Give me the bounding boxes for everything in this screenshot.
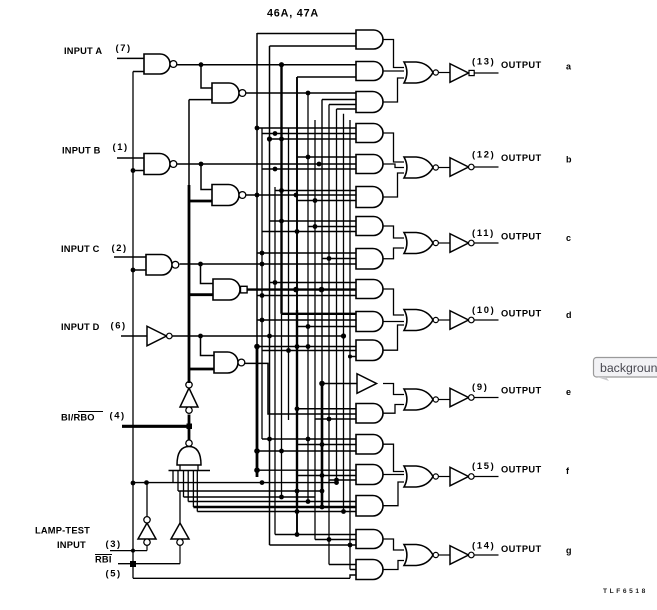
svg-text:(3): (3) (106, 538, 122, 549)
svg-text:OUTPUT: OUTPUT (501, 232, 542, 242)
svg-text:b: b (566, 155, 572, 165)
svg-text:(2): (2) (112, 242, 128, 253)
svg-text:(5): (5) (106, 568, 122, 579)
svg-text:d: d (566, 310, 572, 320)
svg-text:OUTPUT: OUTPUT (501, 309, 542, 319)
svg-text:backgroun: backgroun (600, 361, 657, 375)
svg-text:a: a (566, 62, 572, 72)
svg-text:(10): (10) (472, 304, 495, 315)
svg-text:e: e (566, 387, 571, 397)
svg-text:OUTPUT: OUTPUT (501, 465, 542, 475)
svg-text:OUTPUT: OUTPUT (501, 153, 542, 163)
svg-text:(14): (14) (472, 540, 495, 551)
svg-text:INPUT A: INPUT A (64, 46, 102, 56)
svg-text:(15): (15) (472, 460, 495, 471)
svg-text:INPUT: INPUT (57, 540, 86, 550)
svg-text:(13): (13) (472, 56, 495, 67)
svg-text:OUTPUT: OUTPUT (501, 386, 542, 396)
svg-text:f: f (566, 466, 570, 476)
svg-text:46A, 47A: 46A, 47A (267, 8, 319, 20)
svg-text:TLF6518: TLF6518 (603, 588, 648, 595)
svg-text:RBI: RBI (95, 555, 112, 565)
svg-text:(7): (7) (116, 42, 132, 53)
svg-text:BI/RBO: BI/RBO (61, 413, 95, 423)
svg-text:c: c (566, 233, 571, 243)
svg-text:(4): (4) (110, 410, 126, 421)
svg-text:(9): (9) (472, 381, 489, 392)
svg-text:(12): (12) (472, 149, 495, 160)
svg-text:g: g (566, 546, 572, 556)
svg-text:(11): (11) (472, 227, 495, 238)
svg-text:OUTPUT: OUTPUT (501, 60, 542, 70)
svg-text:INPUT B: INPUT B (62, 146, 101, 156)
svg-text:OUTPUT: OUTPUT (501, 544, 542, 554)
svg-text:(6): (6) (111, 320, 127, 331)
svg-text:INPUT D: INPUT D (61, 322, 100, 332)
svg-text:(1): (1) (113, 141, 129, 152)
svg-text:LAMP-TEST: LAMP-TEST (35, 526, 90, 536)
svg-text:INPUT C: INPUT C (61, 244, 100, 254)
